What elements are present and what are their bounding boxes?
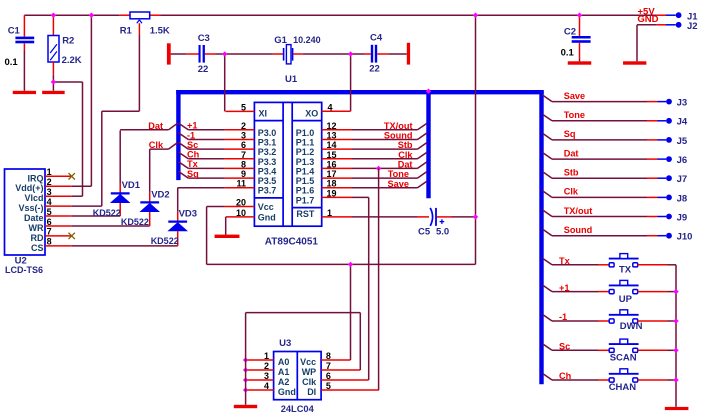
svg-text:22: 22 [198,64,209,75]
svg-text:LCD-TS6: LCD-TS6 [5,265,43,275]
svg-text:P1.5: P1.5 [296,176,315,186]
svg-text:7: 7 [326,361,331,371]
svg-text:WR: WR [29,223,44,233]
svg-text:Clk: Clk [398,150,413,160]
svg-text:Vcc: Vcc [300,357,316,367]
svg-text:17: 17 [327,169,337,179]
svg-text:J5: J5 [677,136,688,147]
svg-text:P1.1: P1.1 [296,138,315,148]
svg-text:Sq: Sq [187,169,199,179]
svg-text:Sound: Sound [384,131,413,141]
svg-text:DI: DI [307,387,316,397]
svg-text:TX/out: TX/out [384,121,413,131]
svg-text:J2: J2 [687,21,698,32]
svg-text:19: 19 [327,188,337,198]
svg-text:6: 6 [241,140,246,150]
svg-text:13: 13 [327,131,337,141]
svg-text:XO: XO [305,109,318,119]
svg-text:Vcc: Vcc [258,202,274,212]
svg-text:Ch: Ch [187,150,200,160]
svg-text:-1: -1 [187,130,195,140]
svg-text:+1: +1 [559,283,569,293]
svg-text:R1: R1 [120,25,133,36]
svg-text:C4: C4 [370,33,383,44]
svg-text:P1.0: P1.0 [296,128,315,138]
svg-text:2: 2 [47,177,52,187]
svg-text:1.5K: 1.5K [150,25,170,36]
svg-text:3: 3 [47,187,52,197]
svg-text:WP: WP [302,367,317,377]
svg-text:+1: +1 [187,121,197,131]
svg-text:Clk: Clk [564,187,579,197]
svg-text:KD522: KD522 [121,217,149,227]
svg-text:CS: CS [31,243,44,253]
svg-text:1: 1 [47,167,52,177]
svg-text:11: 11 [236,179,246,189]
svg-text:VD2: VD2 [151,190,169,201]
svg-text:A2: A2 [278,377,290,387]
svg-text:Tx: Tx [559,256,571,266]
svg-text:U3: U3 [279,338,291,349]
svg-text:J4: J4 [677,117,688,128]
svg-text:Sq: Sq [564,129,576,139]
svg-text:6: 6 [326,371,331,381]
svg-text:J6: J6 [677,155,688,166]
svg-text:5.0: 5.0 [436,226,449,237]
svg-text:TX/out: TX/out [564,206,593,216]
svg-text:Dat: Dat [148,121,163,131]
svg-text:0.1: 0.1 [561,48,575,59]
svg-text:18: 18 [327,179,337,189]
svg-text:Sc: Sc [559,342,570,352]
svg-text:P1.7: P1.7 [296,195,315,205]
svg-text:Dat: Dat [398,160,413,170]
svg-text:4: 4 [47,197,52,207]
svg-text:P3.3: P3.3 [258,157,277,167]
svg-text:8: 8 [326,351,331,361]
svg-text:GND: GND [637,14,658,25]
svg-text:Tone: Tone [564,110,585,120]
svg-text:J10: J10 [677,232,693,243]
svg-text:P1.3: P1.3 [296,157,315,167]
svg-text:A1: A1 [278,367,290,377]
svg-text:P1.4: P1.4 [296,166,315,176]
svg-text:1: 1 [327,208,332,218]
svg-text:7: 7 [241,150,246,160]
svg-text:P3.5: P3.5 [258,176,277,186]
svg-text:5: 5 [47,207,52,217]
svg-text:10.240: 10.240 [293,35,321,45]
svg-text:6: 6 [47,217,52,227]
svg-text:J8: J8 [677,193,688,204]
svg-text:7: 7 [47,227,52,237]
svg-text:4: 4 [264,381,269,391]
svg-text:Ch: Ch [559,371,572,381]
svg-text:2: 2 [241,121,246,131]
svg-text:15: 15 [327,150,337,160]
svg-text:A0: A0 [278,357,290,367]
svg-text:4: 4 [328,103,333,113]
svg-text:TX: TX [619,265,632,276]
svg-text:XI: XI [259,109,268,119]
svg-text:P3.4: P3.4 [258,166,277,176]
svg-text:SCAN: SCAN [610,352,637,363]
svg-text:C3: C3 [198,33,210,44]
svg-text:Stb: Stb [398,140,413,150]
svg-text:8: 8 [241,159,246,169]
svg-text:3: 3 [264,371,269,381]
svg-text:5: 5 [241,102,246,112]
svg-text:KD522: KD522 [93,208,121,218]
svg-text:-1: -1 [559,312,567,322]
svg-text:16: 16 [327,159,337,169]
svg-text:Gnd: Gnd [278,387,296,397]
svg-text:14: 14 [327,140,337,150]
svg-text:P1.2: P1.2 [296,147,315,157]
svg-text:P3.1: P3.1 [258,138,277,148]
svg-text:J3: J3 [677,98,688,109]
svg-text:J9: J9 [677,212,688,223]
svg-text:22: 22 [369,64,380,75]
svg-text:0.1: 0.1 [5,57,19,68]
svg-text:12: 12 [327,121,337,131]
svg-text:5: 5 [326,381,331,391]
svg-text:RD: RD [31,233,44,243]
svg-text:C5: C5 [418,226,431,237]
svg-text:9: 9 [241,169,246,179]
svg-text:AT89C4051: AT89C4051 [265,236,319,247]
svg-text:Save: Save [388,179,409,189]
svg-text:Vss(-): Vss(-) [18,203,43,213]
svg-text:Vlcd: Vlcd [24,193,43,203]
svg-text:VD3: VD3 [179,208,197,219]
svg-text:DWN: DWN [620,321,643,332]
svg-text:Tx: Tx [187,159,199,169]
svg-text:2.2K: 2.2K [62,55,82,66]
svg-text:Vdd(+): Vdd(+) [15,183,43,193]
svg-text:IRQ: IRQ [27,173,43,183]
svg-text:Sound: Sound [564,225,593,235]
svg-text:G1: G1 [274,35,287,46]
svg-text:C2: C2 [564,27,576,38]
svg-text:20: 20 [236,198,246,208]
svg-text:R2: R2 [62,35,74,46]
svg-text:C1: C1 [8,25,21,36]
svg-text:CHAN: CHAN [609,382,637,393]
svg-text:Stb: Stb [564,168,579,178]
svg-text:Tone: Tone [388,169,409,179]
svg-text:1: 1 [264,351,269,361]
svg-text:8: 8 [47,237,52,247]
svg-text:24LC04: 24LC04 [281,404,315,414]
svg-text:10: 10 [236,208,246,218]
svg-text:Clk: Clk [302,377,317,387]
svg-text:P3.0: P3.0 [258,128,277,138]
svg-text:Date: Date [24,213,44,223]
svg-text:P3.2: P3.2 [258,147,277,157]
svg-text:P1.6: P1.6 [296,186,315,196]
svg-text:3: 3 [241,131,246,141]
svg-text:Sc: Sc [187,140,198,150]
svg-text:P3.7: P3.7 [258,186,277,196]
svg-text:Gnd: Gnd [258,212,276,222]
svg-text:RST: RST [296,209,315,219]
svg-text:KD522: KD522 [151,236,179,246]
svg-text:J7: J7 [677,174,688,185]
svg-text:Save: Save [564,91,585,101]
svg-text:U1: U1 [285,74,298,85]
svg-text:VD1: VD1 [122,180,141,191]
svg-text:2: 2 [264,361,269,371]
svg-text:Clk: Clk [149,140,164,150]
svg-text:UP: UP [619,294,633,305]
svg-text:Dat: Dat [564,148,579,158]
